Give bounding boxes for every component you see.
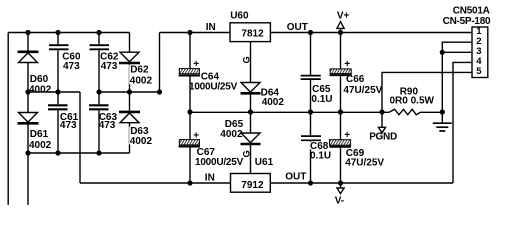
node dot pin3 junction bbox=[440, 50, 445, 55]
node dot D60 top bbox=[25, 30, 30, 35]
label D62 bbox=[129, 65, 153, 84]
node dot C60 top bbox=[55, 30, 60, 35]
node PGND arrow bbox=[378, 127, 385, 132]
node dot mid C64 bbox=[187, 109, 192, 114]
svg-text:D62: D62 bbox=[130, 65, 149, 76]
svg-text:4002: 4002 bbox=[29, 140, 52, 151]
svg-text:+: + bbox=[193, 59, 199, 70]
capacitor C68 bbox=[301, 112, 321, 183]
wire row2 left segment bbox=[28, 91, 80, 93]
wire far-left vertical bbox=[7, 33, 9, 206]
wire bottom rail right (U61 OUT) bbox=[270, 182, 453, 184]
connector CN501A box bbox=[472, 27, 488, 78]
svg-text:47U/25V: 47U/25V bbox=[343, 85, 382, 96]
svg-text:1000U/25V: 1000U/25V bbox=[195, 157, 244, 168]
svg-text:4002: 4002 bbox=[262, 97, 285, 108]
svg-text:4002: 4002 bbox=[130, 76, 153, 87]
node dot mid D64 bbox=[248, 109, 253, 114]
node dot row3 C63 bbox=[96, 150, 101, 155]
node V+ arrow bbox=[337, 22, 344, 33]
resistor R90 bbox=[390, 109, 422, 114]
wire pin5 bend bbox=[382, 72, 472, 112]
svg-text:PGND: PGND bbox=[369, 132, 397, 143]
svg-text:G: G bbox=[241, 56, 251, 63]
svg-text:0.1U: 0.1U bbox=[311, 94, 332, 105]
svg-text:473: 473 bbox=[101, 61, 118, 72]
label C68 bbox=[310, 142, 328, 150]
svg-text:+: + bbox=[344, 130, 350, 141]
wire U60 OUT rail to connector pin1 bbox=[270, 32, 472, 34]
svg-text:U60: U60 bbox=[230, 11, 249, 22]
node dot row3 C61 bbox=[55, 150, 60, 155]
voltage regulator U60 bbox=[230, 23, 270, 42]
svg-text:CN501A: CN501A bbox=[453, 6, 490, 17]
node dot mid ground bbox=[440, 109, 445, 114]
diode D63 bbox=[119, 92, 140, 153]
svg-text:V-: V- bbox=[335, 195, 344, 205]
svg-text:4002: 4002 bbox=[29, 84, 52, 95]
diode D64 bbox=[241, 42, 261, 112]
node dot row2 C62 bbox=[96, 89, 101, 94]
svg-text:U61: U61 bbox=[255, 157, 274, 168]
wire top-left rail bbox=[8, 32, 129, 34]
svg-text:7812: 7812 bbox=[241, 29, 264, 40]
capacitor C64 bbox=[179, 33, 200, 113]
wire vertical row2 to bottom rail bbox=[79, 92, 81, 183]
capacitor C65 bbox=[301, 33, 321, 113]
wire bottom rail left (U61 IN) bbox=[80, 182, 231, 184]
node dot C65 top bbox=[308, 30, 313, 35]
capacitor C60 bbox=[49, 33, 69, 93]
svg-text:473: 473 bbox=[63, 61, 80, 72]
wire U60 IN bbox=[160, 32, 231, 34]
node dot bottom C68 bbox=[308, 180, 313, 185]
capacitor C62 bbox=[90, 33, 110, 93]
capacitor C63 bbox=[89, 92, 109, 153]
svg-text:V+: V+ bbox=[337, 11, 350, 22]
wire D61 column below row3 bbox=[27, 153, 29, 205]
svg-text:C66: C66 bbox=[346, 74, 365, 85]
svg-text:IN: IN bbox=[205, 172, 215, 183]
svg-text:47U/25V: 47U/25V bbox=[345, 158, 384, 169]
node dot C64 top bbox=[187, 30, 192, 35]
capacitor C61 bbox=[48, 92, 68, 153]
svg-text:4002: 4002 bbox=[220, 129, 243, 140]
svg-text:CN-5P-180: CN-5P-180 bbox=[443, 16, 491, 27]
svg-text:+: + bbox=[344, 59, 350, 70]
wire PGND stem bbox=[381, 112, 383, 127]
wire row2 right segment bbox=[99, 91, 160, 93]
node dot row2 IN vertical bbox=[157, 89, 162, 94]
node dot row2 D62 bbox=[127, 89, 132, 94]
svg-text:+: + bbox=[193, 130, 199, 141]
wire IN vertical bbox=[159, 33, 161, 93]
ground symbol at R90 bbox=[433, 112, 452, 131]
svg-text:7912: 7912 bbox=[241, 180, 264, 191]
capacitor C66 bbox=[330, 33, 352, 113]
svg-text:OUT: OUT bbox=[285, 172, 306, 183]
node dot bottom C69 bbox=[338, 180, 343, 185]
svg-text:473: 473 bbox=[60, 120, 77, 131]
node dot V+ bbox=[338, 30, 343, 35]
node V- arrow bbox=[337, 183, 344, 194]
node dot row3 D61 bbox=[25, 150, 30, 155]
svg-text:G: G bbox=[241, 150, 251, 157]
svg-text:1000U/25V: 1000U/25V bbox=[189, 81, 238, 92]
svg-text:IN: IN bbox=[206, 22, 216, 33]
node dot bottom C67 bbox=[187, 180, 192, 185]
svg-text:0R0 0.5W: 0R0 0.5W bbox=[390, 96, 435, 107]
svg-text:4002: 4002 bbox=[130, 136, 153, 147]
wire pin3 bbox=[442, 51, 472, 53]
node dot mid C66 bbox=[338, 109, 343, 114]
wire pin2 bend bbox=[442, 42, 472, 112]
node dot C62 top bbox=[96, 30, 101, 35]
wire pin4 vertical bbox=[453, 62, 472, 183]
diode D61 bbox=[18, 92, 39, 153]
diode D62 bbox=[119, 33, 140, 93]
diode D65 bbox=[241, 112, 261, 174]
node dot row2 D60 bbox=[25, 89, 30, 94]
wire mid ground rail right of R90 bbox=[421, 111, 442, 113]
svg-text:473: 473 bbox=[99, 120, 116, 131]
node dot row2 C60 bbox=[55, 89, 60, 94]
label D63 bbox=[129, 127, 153, 145]
diode D60 bbox=[18, 33, 39, 93]
svg-text:5: 5 bbox=[476, 66, 482, 77]
wire mid ground rail left bbox=[190, 111, 390, 113]
svg-text:OUT: OUT bbox=[287, 22, 308, 33]
capacitor C69 bbox=[330, 112, 352, 183]
node dot mid PGND bbox=[379, 109, 384, 114]
svg-text:D61: D61 bbox=[30, 129, 49, 140]
svg-text:0.1U: 0.1U bbox=[310, 151, 331, 162]
voltage regulator U61 bbox=[231, 174, 271, 193]
node dot mid C65 bbox=[308, 109, 313, 114]
capacitor C67 bbox=[179, 112, 200, 183]
wire row3 rail bbox=[28, 152, 130, 154]
